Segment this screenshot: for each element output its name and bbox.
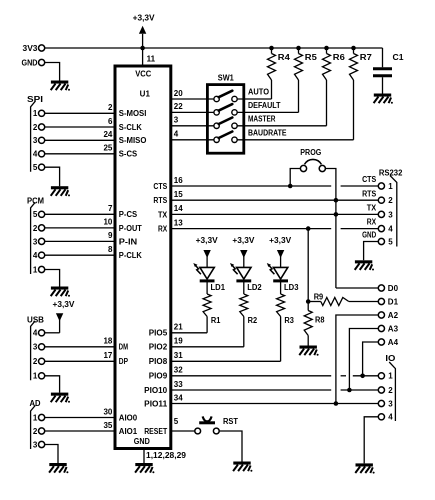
- node rail junction R7: [351, 46, 356, 51]
- svg-text:TX: TX: [158, 210, 168, 219]
- wire +3,3V arrow to rail: [142, 34, 144, 48]
- svg-text:16: 16: [174, 176, 183, 185]
- wire SPI pin 3 to U1: [45, 139, 115, 141]
- svg-text:IO: IO: [385, 354, 395, 363]
- svg-text:RX: RX: [158, 225, 168, 234]
- wire SPI pin 1 to U1: [45, 112, 115, 114]
- svg-text:1,12,28,29: 1,12,28,29: [146, 451, 187, 460]
- wire R6 to MASTER: [326, 80, 328, 126]
- svg-text:5: 5: [174, 417, 179, 426]
- node rail junction R6: [324, 46, 329, 51]
- IO pin 1: [378, 373, 384, 379]
- svg-text:1: 1: [388, 372, 393, 381]
- wire R1 to U1: [206, 317, 208, 333]
- wire PIO10 to IO2 (right part): [341, 389, 379, 391]
- svg-text:R3: R3: [284, 316, 294, 325]
- terminal D1: [378, 298, 384, 304]
- svg-text:25: 25: [103, 144, 112, 153]
- svg-text:S-CS: S-CS: [119, 150, 138, 159]
- wire PROG left to CTS: [290, 169, 300, 187]
- wire R4 to AUTO: [271, 80, 273, 99]
- capacitor C1: [382, 48, 384, 67]
- wire R7 to BAUDRATE: [353, 80, 355, 140]
- node rail junction R4: [269, 46, 274, 51]
- svg-text:1: 1: [33, 109, 38, 118]
- svg-text:4: 4: [33, 150, 38, 159]
- svg-text:2: 2: [388, 196, 393, 205]
- svg-text:3: 3: [33, 440, 38, 449]
- svg-text:SPI: SPI: [27, 95, 43, 104]
- wire AD pin 3 to ground: [45, 445, 58, 464]
- resistor R4: [271, 48, 273, 54]
- terminal A2: [378, 312, 384, 318]
- svg-text:+3,3V: +3,3V: [53, 300, 76, 309]
- LED LD1: [193, 263, 214, 281]
- ground (IO): [355, 463, 374, 473]
- svg-text:11: 11: [147, 55, 156, 64]
- wire U1 to SW1 row 4: [171, 139, 214, 141]
- svg-text:30: 30: [103, 407, 112, 416]
- svg-text:5: 5: [33, 163, 38, 172]
- node 3V3 rail junction: [140, 46, 145, 51]
- svg-text:22: 22: [174, 102, 183, 111]
- svg-text:S-MISO: S-MISO: [119, 136, 147, 145]
- wire R5 to DEFAULT: [298, 80, 300, 112]
- svg-text:R2: R2: [248, 316, 258, 325]
- svg-text:P-CLK: P-CLK: [119, 251, 142, 260]
- wire SW1 AUTO to R4: [237, 98, 271, 100]
- svg-text:35: 35: [103, 421, 112, 430]
- svg-text:33: 33: [174, 380, 183, 389]
- svg-text:4: 4: [174, 130, 179, 139]
- resistor R3: [277, 294, 285, 317]
- svg-text:LD3: LD3: [284, 283, 299, 292]
- svg-text:CTS: CTS: [362, 175, 377, 184]
- svg-text:A4: A4: [388, 338, 399, 347]
- svg-text:4: 4: [388, 225, 393, 234]
- svg-text:AIO0: AIO0: [119, 413, 138, 422]
- svg-text:20: 20: [174, 89, 183, 98]
- svg-text:PIO8: PIO8: [149, 357, 168, 366]
- wire C1 to ground: [382, 77, 384, 93]
- wire U1 to SW1 row 1: [171, 98, 214, 100]
- wire SPI pin 5 to ground: [45, 167, 60, 186]
- svg-text:5: 5: [33, 210, 38, 219]
- wire CTS (right part after hop): [341, 185, 379, 187]
- svg-text:RTS: RTS: [153, 196, 167, 205]
- svg-text:3: 3: [33, 136, 38, 145]
- svg-text:2: 2: [33, 224, 38, 233]
- wire PROG right vertical to D0 row: [325, 169, 336, 289]
- svg-text:32: 32: [174, 366, 183, 375]
- wire PCM to U1: [45, 213, 115, 215]
- svg-text:4: 4: [33, 251, 38, 260]
- svg-text:MASTER: MASTER: [248, 115, 276, 124]
- svg-text:P-CS: P-CS: [119, 210, 138, 219]
- IO pin 4: [378, 414, 384, 420]
- wire R9 to D1 terminal: [349, 301, 379, 303]
- svg-text:AD: AD: [30, 399, 41, 408]
- wire U1 CTS to RS232 pin 1 (left part): [171, 185, 331, 187]
- svg-text:3: 3: [33, 237, 38, 246]
- svg-text:AIO1: AIO1: [119, 427, 138, 436]
- terminal D0: [378, 285, 384, 291]
- svg-text:21: 21: [174, 323, 183, 332]
- svg-text:4: 4: [33, 329, 38, 338]
- node junction on RTS: [334, 198, 339, 203]
- svg-text:2: 2: [33, 427, 38, 436]
- svg-text:BAUDRATE: BAUDRATE: [248, 129, 287, 138]
- svg-text:USB: USB: [27, 316, 44, 325]
- svg-text:1: 1: [33, 372, 38, 381]
- wire A3 to IO pin 2: [349, 329, 378, 391]
- svg-text:RESET: RESET: [144, 427, 167, 436]
- ground (RS232): [355, 260, 374, 270]
- svg-text:CTS: CTS: [153, 182, 167, 191]
- svg-text:PIO9: PIO9: [149, 372, 168, 381]
- wire PIO9 (dash between hops): [341, 375, 346, 377]
- svg-text:3: 3: [174, 116, 179, 125]
- svg-text:14: 14: [174, 204, 183, 213]
- wire +3,3V to LD3: [280, 256, 282, 267]
- wire AD pin 2 to U1 AIO1: [45, 430, 115, 432]
- wire U1 RTS to RS232 pin 2: [171, 199, 378, 201]
- svg-text:PROG: PROG: [300, 148, 321, 157]
- SW1 switch row 4: [214, 137, 219, 142]
- svg-text:SW1: SW1: [218, 74, 235, 83]
- svg-text:R6: R6: [333, 53, 346, 62]
- svg-text:GND: GND: [362, 231, 376, 240]
- svg-text:2: 2: [33, 357, 38, 366]
- ground (RST): [233, 462, 252, 472]
- resistor R1: [203, 294, 211, 317]
- wire R3 to U1: [280, 317, 282, 362]
- svg-text:RX: RX: [367, 218, 377, 227]
- svg-text:R5: R5: [305, 53, 318, 62]
- resistor R8: [307, 302, 309, 311]
- svg-text:DP: DP: [119, 357, 129, 366]
- wire R2 to U1: [243, 317, 245, 347]
- svg-text:+3,3V: +3,3V: [232, 236, 255, 245]
- wire A2 to IO pin 3: [336, 315, 378, 404]
- svg-text:PIO5: PIO5: [149, 329, 168, 338]
- wire LD3 to R3: [280, 281, 282, 294]
- svg-text:D1: D1: [388, 297, 399, 306]
- wire PCM to U1: [45, 240, 115, 242]
- svg-text:17: 17: [103, 351, 112, 360]
- node junction PROG/CTS: [288, 184, 293, 189]
- wire U1 PIO10 to IO pin 2 (part): [171, 389, 331, 391]
- terminal A3: [378, 325, 384, 331]
- svg-text:GND: GND: [22, 58, 38, 67]
- svg-text:8: 8: [108, 245, 113, 254]
- svg-text:18: 18: [103, 337, 112, 346]
- ground (PCM): [51, 287, 70, 297]
- svg-text:24: 24: [103, 130, 112, 139]
- svg-text:2: 2: [108, 103, 113, 112]
- svg-text:6: 6: [108, 117, 113, 126]
- svg-text:PCM: PCM: [27, 196, 44, 205]
- svg-text:19: 19: [174, 337, 183, 346]
- svg-text:1: 1: [388, 182, 393, 191]
- node junction A2/IO3: [334, 401, 339, 406]
- svg-text:RST: RST: [223, 417, 238, 426]
- wire PIO9 to IO1 (right part): [353, 375, 379, 377]
- svg-text:7: 7: [108, 204, 113, 213]
- svg-text:DEFAULT: DEFAULT: [248, 101, 281, 110]
- wire LD2 to R2: [243, 281, 245, 294]
- node junction RX / R8-R9: [306, 226, 311, 231]
- svg-text:+3,3V: +3,3V: [133, 14, 156, 23]
- svg-text:D0: D0: [388, 284, 399, 293]
- svg-text:GND: GND: [134, 437, 150, 446]
- ground (SPI): [51, 186, 70, 196]
- svg-text:13: 13: [174, 218, 183, 227]
- svg-text:LD1: LD1: [211, 283, 226, 292]
- wire USB pin 2 to U1 DP: [45, 360, 115, 362]
- svg-text:1: 1: [33, 413, 38, 422]
- svg-text:TX: TX: [367, 204, 377, 213]
- wire RX (right part after hop): [341, 228, 379, 230]
- node junction A3/IO2: [347, 388, 352, 393]
- wire 3V3 rail: [45, 47, 383, 49]
- wire SW1 DEFAULT to R5: [237, 111, 298, 113]
- wire to D0 terminal: [336, 287, 378, 289]
- resistor R5: [298, 48, 300, 54]
- wire U1 RESET to RST button: [171, 430, 195, 432]
- svg-text:VCC: VCC: [135, 70, 151, 79]
- node rail junction R5: [296, 46, 301, 51]
- SW1 switch row 1: [214, 96, 219, 101]
- svg-text:AUTO: AUTO: [248, 87, 269, 96]
- svg-text:3: 3: [388, 399, 393, 408]
- wire +3,3V to LD2: [243, 256, 245, 267]
- svg-text:+3,3V: +3,3V: [269, 236, 292, 245]
- wire U1 PIO8 to R3: [171, 360, 281, 362]
- wire +3,3V to LD1: [206, 256, 208, 267]
- wire PCM pin 1 to ground: [45, 270, 60, 287]
- IO pin 3: [378, 400, 384, 406]
- svg-text:C1: C1: [393, 53, 405, 62]
- node junction A4/IO1: [360, 374, 365, 379]
- svg-text:3V3: 3V3: [23, 44, 39, 53]
- resistor R9: [307, 229, 309, 302]
- svg-text:R1: R1: [211, 316, 221, 325]
- svg-text:PIO10: PIO10: [144, 386, 168, 395]
- resistor R6: [326, 48, 328, 54]
- svg-text:2: 2: [33, 123, 38, 132]
- wire R8 to ground: [307, 336, 309, 346]
- svg-text:9: 9: [108, 231, 113, 240]
- wire LD1 to R1: [206, 281, 208, 294]
- SW1 switch row 2: [214, 110, 219, 115]
- svg-text:P-IN: P-IN: [119, 237, 138, 246]
- ground (U1 GND): [135, 463, 154, 473]
- svg-text:3: 3: [33, 343, 38, 352]
- wire U1 to SW1 row 2: [171, 111, 214, 113]
- IO pin 2: [378, 387, 384, 393]
- wire SPI pin 4 to U1: [45, 153, 115, 155]
- svg-text:LD2: LD2: [247, 283, 262, 292]
- wire SPI pin 2 to U1: [45, 126, 115, 128]
- svg-text:5: 5: [388, 237, 393, 246]
- LED LD2: [230, 263, 251, 281]
- terminal A4: [378, 339, 384, 345]
- wire U1 TX to RS232 pin 3: [171, 213, 378, 215]
- wire U1 PIO2 to R2: [171, 346, 244, 348]
- svg-text:+3,3V: +3,3V: [196, 236, 219, 245]
- wire GND terminal to ground: [45, 63, 60, 81]
- wire PCM to U1: [45, 254, 115, 256]
- svg-text:RTS: RTS: [362, 189, 377, 198]
- svg-text:31: 31: [174, 351, 183, 360]
- wire AD pin 1 to U1 AIO0: [45, 417, 115, 419]
- ground (R8): [299, 346, 318, 356]
- svg-text:P-OUT: P-OUT: [119, 224, 142, 233]
- wire +3,3V to USB pin 4: [59, 319, 61, 333]
- wire U1 PIO9 to IO pin 1 (part): [171, 375, 331, 377]
- wire SW1 MASTER to R6: [237, 125, 326, 127]
- resistor R7: [353, 48, 355, 54]
- ground (AD): [49, 463, 68, 473]
- LED LD3: [267, 263, 288, 281]
- wire U1 RX to RS232 pin 4 (left part): [171, 228, 331, 230]
- push button RST: [195, 428, 201, 434]
- wire rail to U1 VCC pin 11: [142, 48, 144, 66]
- wire PCM to U1: [45, 227, 115, 229]
- svg-text:34: 34: [174, 393, 183, 402]
- wire U1 PIO11 to IO pin 3: [171, 403, 378, 405]
- svg-text:DM: DM: [119, 343, 128, 352]
- svg-text:R7: R7: [360, 53, 373, 62]
- wire RST to ground: [219, 431, 242, 462]
- svg-text:3: 3: [388, 210, 393, 219]
- svg-text:S-MOSI: S-MOSI: [119, 109, 147, 118]
- wire RS232 GND to ground: [364, 242, 379, 261]
- wire SW1 BAUDRATE to R7: [237, 139, 353, 141]
- svg-text:S-CLK: S-CLK: [119, 123, 142, 132]
- wire U1 to SW1 row 3: [171, 125, 214, 127]
- wire USB pin 4 to +3,3V: [45, 332, 60, 334]
- svg-text:PIO2: PIO2: [149, 343, 168, 352]
- svg-text:A2: A2: [388, 311, 399, 320]
- ground (GND terminal): [51, 81, 70, 91]
- svg-text:PIO11: PIO11: [144, 399, 168, 408]
- wire USB pin 1 to ground: [45, 376, 60, 393]
- wire IO pin 4 to ground: [364, 417, 378, 464]
- SW1 switch row 3: [214, 123, 219, 128]
- wire U1 GND to ground: [143, 449, 145, 464]
- wire A4 to IO pin 1: [363, 342, 379, 376]
- svg-text:R9: R9: [314, 292, 324, 301]
- svg-text:15: 15: [174, 190, 183, 199]
- svg-text:4: 4: [388, 413, 393, 422]
- svg-text:10: 10: [103, 218, 112, 227]
- ground (C1): [374, 94, 393, 104]
- node junction R9/R8: [306, 299, 311, 304]
- ground (USB): [51, 393, 70, 403]
- svg-text:A3: A3: [388, 324, 399, 333]
- wire U1 PIO5 to R1: [171, 332, 207, 334]
- op-amp U1 (Bluetooth module IC): [115, 66, 171, 449]
- svg-text:1: 1: [33, 265, 38, 274]
- wire USB pin 3 to U1 DM: [45, 346, 115, 348]
- node junction on TX: [334, 212, 339, 217]
- svg-text:R4: R4: [278, 53, 291, 62]
- svg-text:U1: U1: [140, 89, 151, 98]
- resistor R2: [240, 294, 248, 317]
- svg-text:2: 2: [388, 386, 393, 395]
- svg-text:R8: R8: [315, 316, 325, 325]
